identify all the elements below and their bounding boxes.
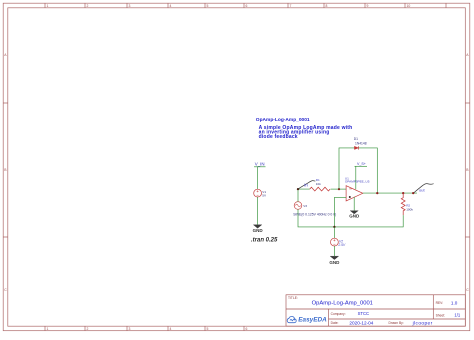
title block [286,295,465,326]
svg-text:GND: GND [349,213,360,218]
pin marker inverting input [349,188,351,190]
node OUT-feedback junction [376,192,378,194]
wire [257,197,259,225]
svg-text:TITLE:: TITLE: [288,296,298,300]
svg-text:GND: GND [329,260,340,265]
svg-text:1/1: 1/1 [454,313,460,318]
resistor R2 [401,193,413,215]
ground GND2 [349,211,360,219]
diode D1 [354,137,367,149]
svg-text:OpAmp-Log-Amp_0001: OpAmp-Log-Amp_0001 [256,117,310,123]
svg-text:Drawn By:: Drawn By: [389,321,404,325]
svg-text:2020-12-04: 2020-12-04 [349,320,373,325]
wire feedback left riser [339,148,354,189]
voltage source V2 [331,238,346,247]
svg-text:diode feedback: diode feedback [259,134,298,140]
svg-text:REV:: REV: [436,301,444,305]
node IN (V3 top / R1 left / probe In) [297,188,299,190]
svg-text:Company:: Company: [331,312,346,316]
svg-text:EasyEDA: EasyEDA [298,316,327,323]
svg-text:jlcooper: jlcooper [412,320,433,326]
svg-text:1: 1 [47,327,49,331]
svg-text:2.5V: 2.5V [337,243,346,247]
svg-text:2: 2 [87,327,89,331]
resistor R1 [310,178,330,191]
svg-text:6: 6 [246,327,248,331]
wire output [363,192,417,194]
svg-text:GND: GND [253,228,264,233]
wire [331,188,347,190]
EasyEDA logo [287,316,327,323]
svg-text:2: 2 [87,4,89,8]
svg-text:Date:: Date: [331,321,339,325]
wire [257,167,259,189]
wire [333,227,335,238]
svg-text:5: 5 [207,327,209,331]
probe out [414,184,434,193]
svg-text:In: In [304,182,308,187]
svg-text:7: 7 [290,4,292,8]
svg-text:.tran 0.25: .tran 0.25 [251,237,278,243]
node OUT-R2 junction [402,192,404,194]
svg-text:V_S+: V_S+ [357,162,366,166]
svg-text:5: 5 [207,4,209,8]
svg-text:OPAMP5PEE_U5: OPAMP5PEE_U5 [345,180,370,184]
probe In [298,181,315,189]
svg-text:out: out [419,187,425,192]
wire opamp +in [334,197,346,227]
svg-text:4: 4 [170,4,172,8]
svg-text:8: 8 [326,4,328,8]
svg-text:STCC: STCC [358,311,369,316]
wire [333,246,335,256]
net flag V_IN [254,161,266,166]
op-amp U1 [345,176,370,201]
svg-text:V3: V3 [303,204,307,208]
voltage source V3 (sine) [294,202,307,210]
voltage source V1 [254,189,267,197]
svg-text:3: 3 [129,327,131,331]
wire opamp gnd [353,197,355,211]
svg-text:SINE(0 0.125V 400Hz 0 0 0): SINE(0 0.125V 400Hz 0 0 0) [293,212,336,216]
node INV (R1 right / op-amp inverting input / feedback) [338,188,340,190]
svg-text:OpAmp-Log-Amp_0001: OpAmp-Log-Amp_0001 [312,301,373,307]
ground GND1 [253,225,264,233]
svg-text:3: 3 [129,4,131,8]
wire bottom rail [298,209,403,227]
node OUT-probe junction [412,192,414,194]
net flag V_S+ [355,162,368,166]
svg-text:10k: 10k [316,182,321,186]
svg-text:V_IN: V_IN [255,161,265,166]
ground GND3 [329,256,340,265]
svg-text:100k: 100k [406,207,413,211]
svg-text:10: 10 [407,4,411,8]
svg-text:1.0: 1.0 [451,300,458,305]
svg-text:9: 9 [367,4,369,8]
node BIAS (bottom rail / V2 / op-amp + input) [333,226,335,228]
svg-text:4: 4 [170,327,172,331]
wire opamp vcc [355,166,357,189]
wire [298,189,310,202]
svg-text:1N4148: 1N4148 [355,141,367,145]
svg-text:1: 1 [47,4,49,8]
wire feedback right riser [359,148,378,193]
pin marker non-inverting input [349,196,351,198]
svg-text:6: 6 [246,4,248,8]
svg-text:Sheet:: Sheet: [436,313,446,317]
description text [259,125,353,140]
